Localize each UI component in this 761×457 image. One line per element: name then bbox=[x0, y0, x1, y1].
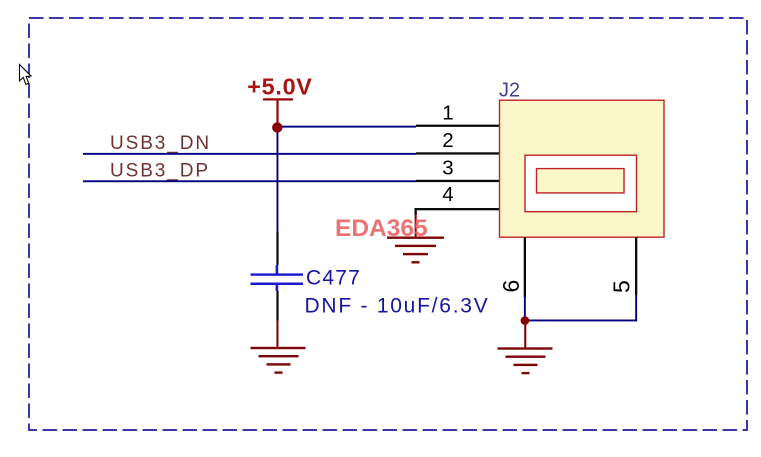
svg-text:DNF - 10uF/6.3V: DNF - 10uF/6.3V bbox=[305, 294, 490, 317]
svg-text:2: 2 bbox=[442, 129, 453, 152]
power symbol +5.0V bbox=[247, 74, 312, 127]
wire USB3_DN bbox=[83, 153, 416, 155]
svg-text:USB3_DP: USB3_DP bbox=[110, 160, 210, 181]
svg-text:J2: J2 bbox=[499, 79, 520, 101]
ground pin 4 bbox=[387, 237, 444, 264]
wire pin 6 to pin 5 (blue) bbox=[524, 320, 637, 322]
pin 1 stub bbox=[416, 125, 500, 127]
svg-text:EDA365: EDA365 bbox=[335, 215, 428, 242]
svg-text:5: 5 bbox=[608, 280, 634, 293]
pin 6 stub bbox=[524, 237, 526, 321]
connector J2 body bbox=[500, 100, 665, 237]
junction dot +5V node bbox=[272, 122, 282, 132]
pin 3 stub bbox=[416, 180, 500, 182]
junction dot ground node bbox=[521, 316, 530, 325]
svg-text:4: 4 bbox=[442, 183, 453, 206]
svg-text:+5.0V: +5.0V bbox=[247, 74, 312, 100]
capacitor C477 bbox=[251, 265, 304, 291]
svg-text:USB3_DN: USB3_DN bbox=[110, 133, 211, 154]
pin 2 stub bbox=[416, 152, 500, 154]
wire +5V node to pin 1 (blue) bbox=[278, 126, 417, 128]
ground C477 bbox=[251, 347, 306, 374]
svg-text:3: 3 bbox=[442, 157, 453, 180]
wire ground node stem bbox=[524, 321, 526, 348]
svg-text:1: 1 bbox=[442, 101, 453, 124]
wire C477 bottom pin to ground bbox=[276, 291, 278, 348]
wire USB3_DP bbox=[83, 180, 416, 182]
svg-text:6: 6 bbox=[498, 280, 524, 293]
pin 4 stub with bend to ground bbox=[415, 208, 500, 238]
ground J2 shield bbox=[498, 347, 553, 374]
svg-text:C477: C477 bbox=[306, 266, 361, 289]
wire +5V node down to C477 (blue then black pin) bbox=[276, 127, 278, 265]
pin 5 stub bbox=[635, 237, 637, 321]
